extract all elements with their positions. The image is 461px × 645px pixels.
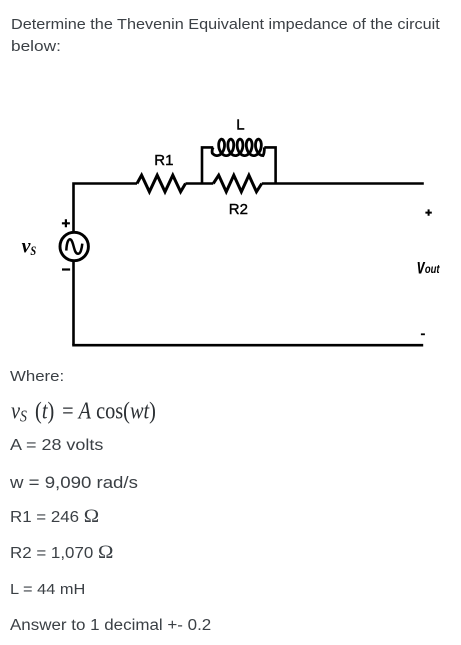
formula vs(t) = A cos(wt) bbox=[11, 400, 168, 428]
resistor R1 bbox=[137, 175, 186, 192]
wire: inductor right lead + right vertical bbox=[264, 147, 275, 183]
wire: left vertical lower bbox=[72, 261, 75, 345]
svg-text:L: L bbox=[236, 117, 244, 134]
wire: bottom horizontal bbox=[72, 344, 423, 347]
resistor R2 bbox=[213, 175, 261, 192]
w line bbox=[10, 474, 127, 491]
title bbox=[11, 14, 408, 58]
minus at source bbox=[62, 268, 70, 270]
minus at output bbox=[421, 333, 425, 335]
plus at output bbox=[425, 209, 431, 215]
voltage source vs (circle) bbox=[60, 232, 88, 260]
L line bbox=[10, 582, 79, 597]
svg-text:S: S bbox=[30, 243, 36, 258]
R1 line bbox=[10, 509, 92, 526]
plus at source bbox=[62, 219, 70, 227]
R2 line bbox=[10, 545, 105, 562]
svg-text:out: out bbox=[425, 264, 441, 276]
circuit schematic bbox=[0, 0, 461, 360]
wire: between R1 and R2 bbox=[186, 182, 214, 185]
wire: inductor branch left vertical + top lead bbox=[202, 147, 213, 183]
inductor L bbox=[212, 139, 264, 155]
sine wave inside source bbox=[66, 239, 82, 253]
wire: R2 to right edge (top) bbox=[262, 182, 424, 185]
A line bbox=[10, 438, 91, 454]
answer line bbox=[10, 618, 194, 634]
wire: left vertical upper + top-left horizontal bbox=[74, 184, 138, 233]
where: bbox=[10, 369, 58, 384]
svg-text:R1: R1 bbox=[154, 152, 173, 169]
svg-text:R2: R2 bbox=[229, 201, 248, 218]
